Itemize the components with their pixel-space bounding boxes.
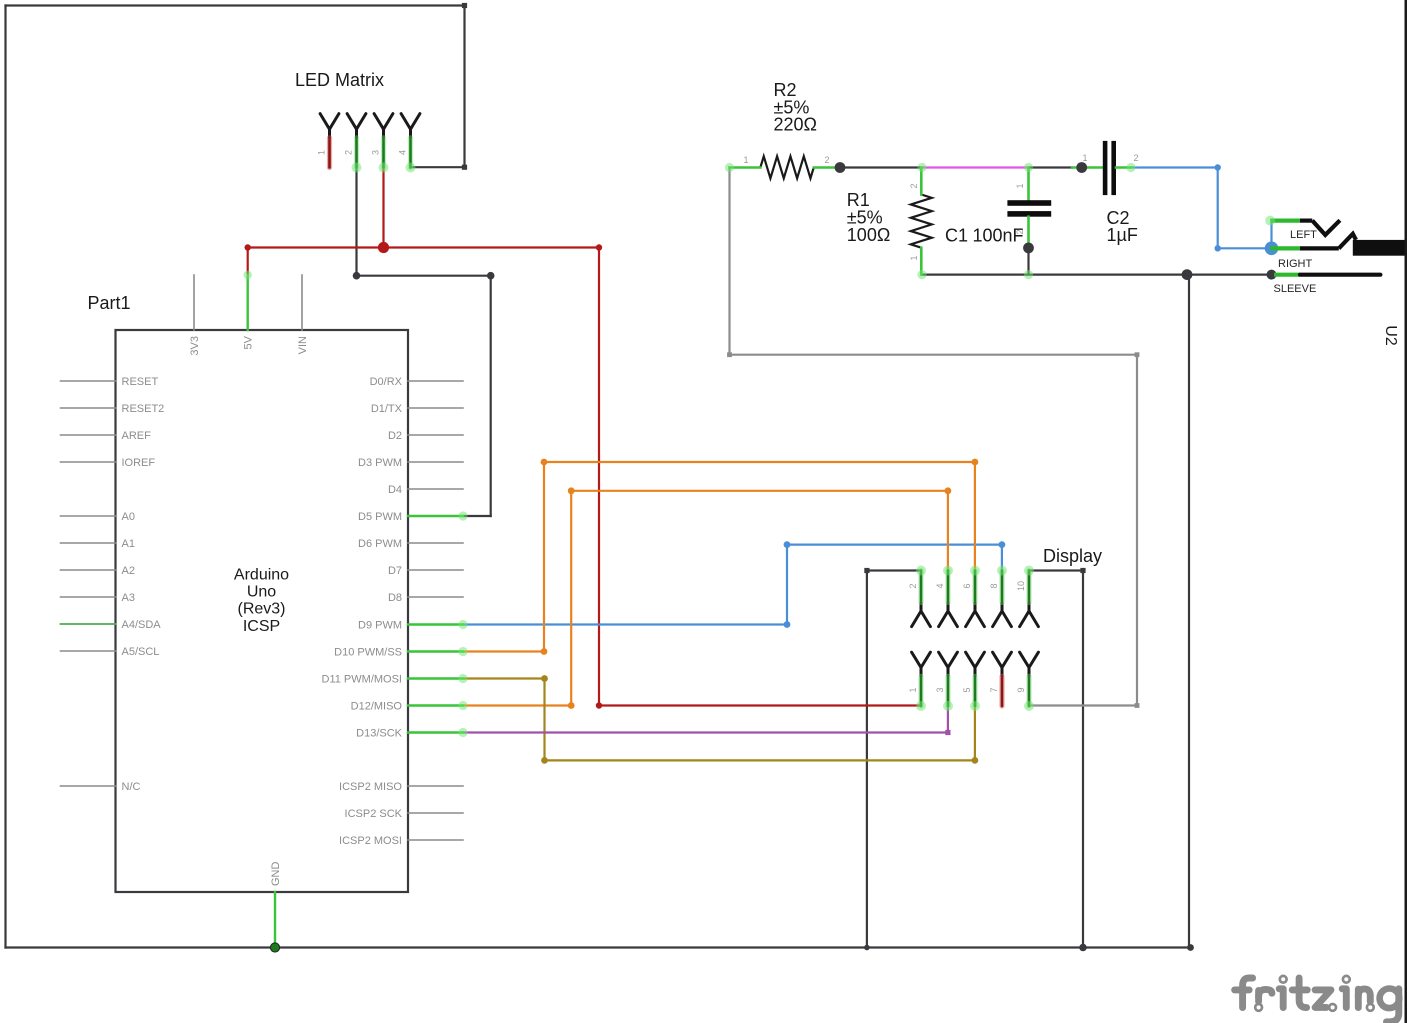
svg-text:A4/SDA: A4/SDA [122,619,162,631]
svg-text:ICSP: ICSP [243,618,280,635]
svg-text:8: 8 [989,583,999,588]
svg-text:RIGHT: RIGHT [1278,258,1313,270]
svg-text:A2: A2 [122,565,135,577]
svg-text:A1: A1 [122,538,135,550]
svg-text:7: 7 [989,687,999,692]
svg-text:IOREF: IOREF [122,457,156,469]
svg-text:2: 2 [908,583,918,588]
svg-text:D9 PWM: D9 PWM [358,620,402,632]
svg-text:D6 PWM: D6 PWM [358,538,402,550]
svg-text:Part1: Part1 [88,293,131,313]
svg-text:2: 2 [824,155,829,165]
svg-text:D13/SCK: D13/SCK [356,728,403,740]
svg-text:D3 PWM: D3 PWM [358,457,402,469]
svg-text:LEFT: LEFT [1290,229,1317,241]
svg-text:2: 2 [909,183,919,188]
svg-text:RESET2: RESET2 [122,403,165,415]
svg-text:D8: D8 [388,592,402,604]
svg-text:(Rev3): (Rev3) [237,601,285,618]
svg-text:Uno: Uno [247,584,276,601]
svg-text:RESET: RESET [122,376,159,388]
svg-text:SLEEVE: SLEEVE [1274,283,1317,295]
svg-text:D4: D4 [388,484,402,496]
svg-text:6: 6 [962,583,972,588]
svg-text:D1/TX: D1/TX [371,403,403,415]
svg-text:N/C: N/C [122,781,141,793]
svg-text:A0: A0 [122,511,135,523]
svg-text:1: 1 [1015,183,1025,188]
svg-text:D5 PWM: D5 PWM [358,511,402,523]
svg-text:1: 1 [909,255,919,260]
svg-text:ICSP2 MISO: ICSP2 MISO [339,781,402,793]
svg-text:10: 10 [1016,581,1026,591]
svg-text:U2: U2 [1382,325,1399,346]
svg-text:ICSP2 MOSI: ICSP2 MOSI [339,835,402,847]
svg-text:D0/RX: D0/RX [370,376,403,388]
svg-text:2: 2 [1133,153,1138,163]
svg-text:Display: Display [1043,546,1102,566]
svg-text:AREF: AREF [122,430,152,442]
svg-text:4: 4 [935,583,945,588]
svg-text:D2: D2 [388,430,402,442]
svg-text:5V: 5V [243,335,255,349]
svg-text:A3: A3 [122,592,135,604]
svg-text:D12/MISO: D12/MISO [351,701,403,713]
svg-text:D10 PWM/SS: D10 PWM/SS [334,647,402,659]
svg-text:1: 1 [1082,153,1087,163]
svg-text:A5/SCL: A5/SCL [122,646,160,658]
svg-text:2: 2 [1015,229,1025,234]
svg-text:9: 9 [1016,687,1026,692]
svg-text:4: 4 [398,150,408,155]
svg-text:3V3: 3V3 [189,336,201,356]
svg-text:1: 1 [743,155,748,165]
svg-text:3: 3 [371,150,381,155]
svg-text:5: 5 [962,687,972,692]
svg-text:GND: GND [270,862,282,887]
svg-text:100Ω: 100Ω [847,225,891,245]
svg-text:VIN: VIN [297,336,309,354]
svg-text:220Ω: 220Ω [774,115,818,135]
svg-text:LED Matrix: LED Matrix [295,70,384,90]
svg-text:D7: D7 [388,565,402,577]
svg-text:D11 PWM/MOSI: D11 PWM/MOSI [322,674,402,686]
svg-text:1: 1 [317,150,327,155]
svg-text:C1: C1 [945,226,968,246]
svg-text:3: 3 [935,687,945,692]
svg-text:1µF: 1µF [1107,225,1138,245]
svg-text:2: 2 [344,150,354,155]
svg-text:Arduino: Arduino [234,567,289,584]
svg-text:1: 1 [908,687,918,692]
svg-text:ICSP2 SCK: ICSP2 SCK [345,808,403,820]
